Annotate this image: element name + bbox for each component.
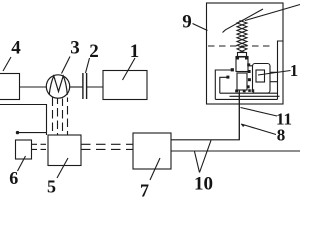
bottom channel line outer [215, 98, 277, 100]
bottom channel line middle [230, 95, 280, 97]
coupling plate right [86, 73, 88, 99]
box 9 [207, 3, 284, 104]
svg-text:2: 2 [89, 41, 99, 62]
linkage 6-5 upper [32, 143, 49, 145]
shaft dashed line a [52, 98, 54, 136]
stub wire with dot [18, 132, 47, 134]
drop line from valve [238, 90, 240, 140]
valve upper body [236, 57, 248, 72]
leader 1 right [258, 71, 291, 76]
leader 6 [18, 156, 26, 171]
spring [237, 20, 247, 53]
svg-text:8: 8 [277, 126, 286, 145]
wire pump to capacitor [70, 86, 83, 88]
connector valve to block [250, 65, 253, 67]
valve lower body [237, 73, 247, 90]
leader 11 [241, 108, 278, 117]
leader 8 arrowhead [241, 124, 246, 127]
svg-text:7: 7 [140, 181, 149, 201]
box 1 [103, 71, 147, 100]
connector lower [270, 81, 278, 83]
port dot bottom left [235, 90, 238, 93]
shaft dashed line d [67, 98, 69, 136]
bottom channel line inner [220, 92, 278, 94]
leader line crossing spring [223, 9, 264, 33]
box 4 [0, 74, 20, 100]
valve top tab left [236, 57, 239, 60]
leader 1 top [123, 58, 136, 80]
pipe top from box7 [171, 90, 239, 140]
svg-text:5: 5 [47, 177, 56, 197]
leader 4 [3, 57, 11, 71]
port dot right 3 [248, 78, 251, 81]
port dot right 1 [247, 63, 250, 66]
linkage 5-7 upper [81, 143, 133, 145]
spring return strokes [237, 21, 247, 53]
junction dot [16, 131, 19, 134]
shaft dashed line b [57, 99, 59, 136]
port dot lower pair b [252, 89, 255, 92]
pump M3 circle [46, 75, 69, 98]
left outer channel [215, 70, 232, 99]
port dot bottom right [243, 90, 246, 93]
valve plunger [238, 53, 247, 58]
svg-text:1: 1 [290, 61, 298, 80]
pipe bottom from box7 [171, 150, 300, 152]
svg-text:9: 9 [182, 12, 192, 33]
valve top tab right [245, 57, 248, 60]
linkage 5-7 lower [81, 148, 133, 150]
leader 7 [150, 158, 160, 180]
wire box4 to pump [20, 86, 47, 88]
leader 9 [193, 24, 208, 31]
svg-text:10: 10 [194, 174, 213, 195]
connector upper [270, 71, 278, 73]
shaft dashed line c [62, 99, 64, 136]
leader 2 [86, 58, 90, 73]
linkage 6-5 lower [32, 148, 49, 150]
wire left low [0, 105, 47, 136]
leader 5 [57, 158, 68, 178]
datum dashed line [208, 45, 273, 47]
pump M symbol [49, 76, 67, 95]
svg-text:1: 1 [130, 41, 140, 62]
port dot left lower [226, 76, 229, 79]
coupling plate left [82, 73, 84, 99]
wire capacitor to box1 [87, 86, 103, 88]
box 7 [133, 133, 171, 169]
leader 3 [62, 57, 71, 74]
port dot right 4 [247, 85, 250, 88]
svg-text:6: 6 [9, 168, 18, 188]
right rounded block [253, 64, 271, 94]
right channel [278, 41, 284, 99]
left inner channel [220, 77, 228, 93]
leader 10 right [200, 140, 212, 172]
right inner block [256, 70, 265, 82]
leader 10 left [195, 152, 200, 173]
port dot right 2 [248, 70, 251, 73]
port dot lower pair a [248, 89, 251, 92]
leader line to corner [245, 5, 300, 21]
box 6 [16, 140, 32, 159]
leader 8 [241, 124, 276, 135]
svg-text:4: 4 [11, 38, 21, 59]
svg-text:3: 3 [70, 38, 80, 59]
box 5 [48, 135, 81, 166]
port dot left upper [231, 68, 234, 71]
